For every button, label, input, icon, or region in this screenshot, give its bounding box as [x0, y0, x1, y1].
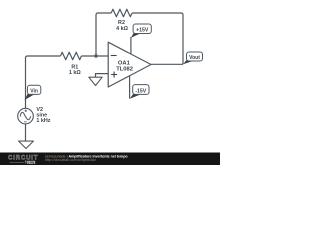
- wire R1 to inverting input: [81, 55, 108, 57]
- svg-text:Vin: Vin: [30, 89, 38, 95]
- footer bar: [0, 153, 220, 166]
- resistor R2: [111, 9, 132, 17]
- +15V supply flag balloon: [133, 24, 151, 34]
- wire op-amp output: [151, 63, 183, 65]
- wire input left corner vertical (Vin branch): [26, 56, 61, 108]
- -15V supply flag balloon: [133, 85, 149, 95]
- svg-text:http://circuitlab.com/c9qmk4dz: http://circuitlab.com/c9qmk4dz: [45, 158, 96, 162]
- CircuitLab logo bolt: [25, 160, 28, 165]
- -15V supply flag tail: [130, 94, 141, 99]
- V2 sine wave symbol: [20, 112, 31, 119]
- resistor R1: [61, 52, 82, 60]
- CircuitLab logo underline: [10, 161, 25, 163]
- Vin flag tail: [25, 93, 35, 100]
- wire V+ power pin: [130, 37, 132, 54]
- op-amp non-inverting input plus symbol: [111, 72, 117, 78]
- CircuitLab logo LAB text marks: [28, 161, 34, 163]
- wire non-inverting input to ground: [96, 74, 109, 78]
- Vin flag balloon: [27, 85, 40, 94]
- node A junction dot: [94, 54, 97, 57]
- svg-text:1 kHz: 1 kHz: [36, 118, 50, 124]
- ground (below V2): [19, 141, 34, 148]
- svg-text:Vout: Vout: [189, 55, 200, 61]
- Vout flag balloon: [187, 52, 203, 61]
- wire feedback top-right to output node: [132, 13, 183, 64]
- voltage source V2 circle: [18, 108, 34, 124]
- +15V supply flag tail: [131, 33, 141, 38]
- Vout flag tail: [183, 59, 194, 64]
- V2 plus polarity mark: [25, 110, 27, 112]
- op-amp OA1 triangle: [108, 42, 151, 87]
- svg-text:-15V: -15V: [135, 88, 146, 94]
- CircuitLab logo LAB box: [27, 161, 35, 164]
- svg-text:TL082: TL082: [116, 67, 133, 73]
- svg-text:+15V: +15V: [136, 27, 149, 33]
- wire feedback top-left vertical (node A to R2): [96, 13, 111, 56]
- V2 minus polarity mark: [24, 121, 26, 123]
- wire V2 to ground: [25, 124, 27, 141]
- svg-text:1 kΩ: 1 kΩ: [69, 70, 81, 76]
- op-amp inverting input minus symbol: [111, 55, 117, 57]
- ground (op-amp non-inverting input): [89, 77, 102, 85]
- wire V- power pin: [129, 75, 131, 98]
- svg-text:4 kΩ: 4 kΩ: [116, 26, 128, 32]
- svg-text:CIRCUIT: CIRCUIT: [8, 156, 38, 162]
